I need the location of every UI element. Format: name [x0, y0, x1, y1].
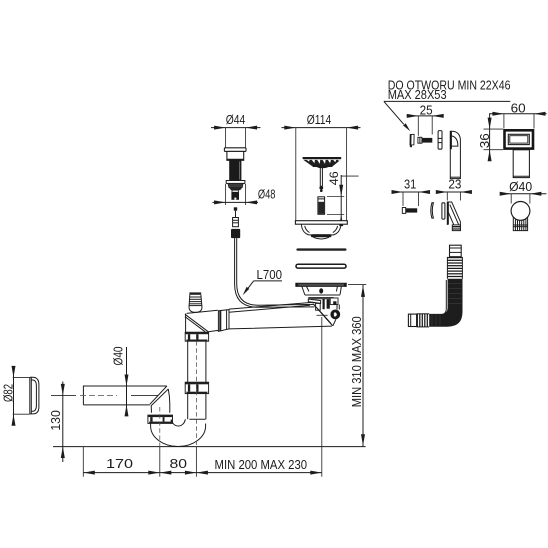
overflow screw 2: [402, 208, 405, 214]
cable block: [231, 229, 240, 238]
note underline: [384, 100, 510, 102]
note leader arrow: [384, 101, 404, 124]
dishwasher spigot (corrugated): [189, 292, 201, 294]
overflow cover (side view): [450, 131, 460, 178]
overflow housing (front): [505, 130, 534, 148]
latch assembly: [323, 299, 325, 309]
bevel gasket: [296, 264, 346, 268]
outlet pipe: [83, 386, 166, 405]
drain centerline down: [321, 317, 323, 477]
bowden cable (L700): [235, 238, 315, 307]
flat washer 2: [442, 203, 445, 219]
dimension MIN 310 MAX 360: [348, 284, 366, 286]
svg-text:80: 80: [170, 456, 188, 471]
pipe centerline: [51, 394, 76, 396]
svg-text:25: 25: [420, 103, 433, 118]
knob cap: [224, 148, 246, 152]
curved washer: [431, 203, 434, 218]
svg-text:46: 46: [327, 171, 341, 185]
svg-text:MAX 28X53: MAX 28X53: [388, 87, 447, 102]
dimension Ø44 line: [211, 127, 261, 129]
mechanism plate: [308, 297, 334, 299]
dimension Ø114 line: [282, 127, 361, 129]
tailpiece flange: [295, 221, 347, 225]
strainer basket: [303, 157, 342, 159]
hose lower ribs: [417, 314, 427, 327]
pull cable pin: [234, 207, 237, 210]
trap centerline left: [159, 407, 161, 447]
standpipe nut lower: [185, 382, 208, 393]
trap inlet elbow: [150, 386, 167, 404]
tee connector body: [185, 314, 187, 333]
knob skirt: [227, 151, 244, 160]
cover cap (side view): [31, 377, 39, 414]
svg-text:170: 170: [106, 456, 133, 471]
knob threaded tip: [232, 190, 238, 192]
drain top flange: [296, 283, 347, 286]
svg-text:Ø44: Ø44: [226, 112, 246, 127]
knob washer: [226, 181, 245, 184]
hose dark horizontal section: [441, 280, 447, 315]
extension line left: [82, 447, 84, 477]
lever bracket: [308, 299, 320, 303]
svg-text:60: 60: [511, 100, 526, 115]
pivot pin: [319, 288, 323, 293]
cable connector: [233, 218, 239, 227]
trap inlet nut: [148, 415, 173, 423]
svg-text:Ø48: Ø48: [258, 187, 276, 202]
tailpiece bowl: [302, 226, 341, 235]
dimension line bottom: [83, 472, 321, 474]
pipe nut (horizontal): [218, 310, 229, 332]
overflow screw 1: [418, 137, 422, 143]
svg-text:MIN 200 MAX 230: MIN 200 MAX 230: [215, 457, 308, 472]
knob nut: [228, 183, 243, 187]
svg-text:MIN 310 MAX 360: MIN 310 MAX 360: [349, 316, 364, 407]
svg-text:36: 36: [477, 133, 492, 148]
svg-text:Ø114: Ø114: [307, 112, 332, 127]
strainer stem: [319, 168, 321, 187]
dimension Ø48 line: [213, 201, 259, 203]
svg-text:31: 31: [404, 177, 416, 192]
cable end fitting: [316, 303, 321, 310]
hose dark vertical section and elbow: [429, 279, 462, 327]
svg-text:130: 130: [48, 410, 63, 431]
overflow elbow (23): [447, 202, 460, 231]
overflow insert (hatched): [318, 197, 325, 215]
hose upper ribs: [447, 258, 462, 277]
P-trap U-bend: [151, 423, 206, 446]
washer: [438, 131, 442, 150]
drain body: [302, 287, 305, 296]
horizontal waste pipe (tilted): [187, 302, 314, 313]
extension lines knob: [225, 128, 227, 148]
extension lines Ø114: [295, 128, 297, 221]
housing stem: [513, 150, 529, 178]
svg-text:Ø40: Ø40: [111, 347, 126, 366]
knob shaft (dark): [229, 160, 241, 180]
cam wheel: [330, 310, 340, 320]
svg-text:L700: L700: [256, 267, 282, 282]
leader arrow L700: [254, 280, 282, 282]
svg-text:Ø40: Ø40: [509, 179, 532, 194]
hose top connector: [450, 245, 462, 257]
svg-text:23: 23: [448, 177, 461, 192]
hose end connector: [408, 314, 416, 326]
fixing plate (tilted): [410, 134, 414, 145]
flat gasket: [296, 248, 346, 250]
trap standpipe: [187, 341, 189, 419]
funnel with hatch: [313, 304, 333, 326]
floor reference line: [53, 446, 366, 448]
standpipe nut upper: [185, 332, 208, 341]
trap centerline right: [195, 334, 197, 447]
blanking cap: [511, 202, 530, 221]
